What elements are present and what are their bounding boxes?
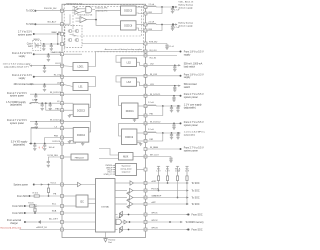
wire FB3 feedback	[46, 103, 62, 110]
svg-text:system power: system power	[184, 149, 198, 152]
svg-text:supply: supply	[19, 78, 26, 80]
svg-text:Areas on coin cell battery bac: Areas on coin cell battery backup suppli…	[105, 48, 142, 51]
pin left #18	[61, 195, 64, 198]
capacitor C1 (coin cell)	[42, 44, 45, 51]
node IN_LDO1 supply	[146, 50, 205, 56]
comparator U2 (backup detect)	[75, 7, 79, 11]
dashed box: backup switch matrix	[65, 26, 82, 48]
node DCDC1 output (1.1V core supply)	[146, 102, 203, 116]
svg-text:IN_BIAS: IN_BIAS	[150, 146, 159, 149]
AND gate U4	[79, 7, 92, 13]
wire FB5 loop	[146, 7, 163, 14]
label DCDC5 comparator ref	[78, 15, 93, 17]
capacitor C3 (VBACKUP)	[47, 54, 50, 61]
svg-text:DCDC5_PG: DCDC5_PG	[95, 8, 107, 10]
svg-text:nINT: nINT	[151, 202, 156, 204]
svg-text:GPIO3: GPIO3	[151, 228, 158, 230]
wire FB6 to DCDC6	[136, 28, 146, 31]
svg-text:Pad: Pad	[108, 242, 111, 244]
resistor R4 pull-up to VIO	[165, 166, 170, 184]
svg-text:VDD_ BU (1 V): VDD_ BU (1 V)	[178, 2, 193, 4]
svg-text:3.3-V I/O supply: 3.3-V I/O supply	[11, 142, 28, 144]
wire VBACKUP into switch area	[62, 53, 82, 55]
node IN_LS2 supply	[146, 56, 178, 60]
svg-text:VBACKUP: VBACKUP	[51, 51, 62, 54]
block DCDC4	[62, 122, 91, 144]
block LS2	[116, 56, 146, 67]
label battery backup domain supply 1	[178, 4, 193, 10]
svg-text:From 1.8 V to 5.5 V: From 1.8 V to 5.5 V	[184, 50, 204, 53]
capacitor C18 (IN_DCDC1)	[172, 96, 175, 102]
svg-text:From 2.7 V to 5.5 V: From 2.7 V to 5.5 V	[7, 119, 27, 122]
wire AC_DET into digital	[62, 221, 98, 223]
pin left #2	[61, 23, 64, 26]
svg-text:LDO1: LDO1	[77, 67, 84, 69]
svg-text:100 uF: 100 uF	[49, 147, 56, 149]
svg-text:charger: charger	[10, 222, 18, 225]
block I2C	[62, 195, 96, 207]
wire DCDC4_SEL with RC	[48, 155, 62, 160]
svg-text:(adjustable): (adjustable)	[10, 104, 22, 107]
svg-text:(adjustable): (adjustable)	[184, 106, 196, 109]
coin cell battery BT1	[27, 39, 41, 50]
svg-text:system power: system power	[184, 124, 198, 127]
node From 2.7-5.5V system power (IN_DCDC3)	[7, 92, 62, 98]
svg-text:1.8-V or 3.3-V analog supply: 1.8-V or 3.3-V analog supply	[3, 63, 32, 66]
buffer U8 (PGOOD)	[115, 188, 146, 194]
svg-text:Thermal: Thermal	[108, 238, 116, 241]
pin right #7	[144, 54, 147, 57]
pin right supervisor	[144, 168, 147, 171]
svg-text:IN_LS3: IN_LS3	[150, 74, 158, 76]
node nINT to SOC	[146, 202, 200, 206]
svg-text:nWAKEUP: nWAKEUP	[151, 195, 162, 198]
pin left #16	[61, 156, 64, 159]
capacitor C19 (DCDC1 out a)	[170, 106, 173, 112]
svg-text:switch: switch	[184, 86, 191, 89]
ground DCDC4	[68, 141, 85, 146]
capacitor C17 (LS3)	[173, 86, 176, 92]
node IN_BIAS supply	[146, 146, 205, 152]
node From SOC (SDA)	[12, 210, 62, 215]
ground DCDC3	[68, 115, 74, 118]
pin left #20	[61, 212, 64, 215]
svg-text:INT_LDO: INT_LDO	[150, 155, 159, 157]
node PGOOD to SOC	[146, 189, 200, 193]
wire BU_ACT inside	[62, 14, 70, 24]
node GPIO1 from SOC	[146, 213, 203, 217]
pin right #10	[144, 84, 147, 87]
pin right #2	[144, 12, 147, 15]
svg-text:From SOC: From SOC	[17, 195, 28, 198]
svg-text:1.8VA: 1.8VA	[175, 170, 181, 173]
wire FB6 loop	[146, 25, 163, 32]
capacitor C21 (DCDC2 out a)	[170, 133, 173, 139]
node From 1.2-3.3V supply (IN_LS1)	[12, 74, 62, 80]
pin right #3	[144, 23, 147, 26]
wire supervisor to right pin	[137, 169, 146, 171]
pin right #4	[144, 29, 147, 32]
wire coin cell to VBACKUP pin (CC)	[41, 43, 62, 45]
wire comparator U5 output to DCDC5/6	[87, 11, 121, 26]
wire thermal pad stub	[105, 232, 107, 237]
buffer U7 (nRESET)	[115, 181, 146, 185]
pin left #4	[61, 43, 64, 46]
svg-text:DCDC4: DCDC4	[52, 141, 60, 143]
capacitor C4 (LDO1)	[43, 66, 46, 73]
buffer U10 (nINT)	[115, 202, 146, 208]
svg-text:From SOC: From SOC	[12, 205, 23, 208]
label VDD_BU	[178, 2, 193, 4]
svg-text:DCDC5: DCDC5	[124, 11, 133, 13]
svg-text:DCDC3: DCDC3	[77, 111, 86, 113]
wire FB5 to DCDC5	[136, 12, 146, 15]
block digital core	[96, 179, 116, 233]
svg-text:From SOC: From SOC	[12, 212, 23, 215]
comparator U5 (VBACKUP)	[76, 17, 87, 23]
svg-text:LDO1: LDO1	[55, 63, 61, 65]
pin right #12	[144, 105, 147, 108]
svg-text:supply: supply	[19, 56, 26, 58]
label: coin cell battery backup supplies	[105, 48, 142, 51]
node LS3 output	[146, 83, 198, 89]
block LS3	[116, 76, 146, 87]
svg-text:IN_LS1: IN_LS1	[54, 74, 62, 76]
pin right #1	[144, 6, 147, 9]
svg-text:From 2.7 V to 5.5 V: From 2.7 V to 5.5 V	[184, 93, 204, 96]
svg-text:(adjustable), default 1.8 V: (adjustable), default 1.8 V	[4, 65, 29, 68]
buffer pair U11 (GPIO1)	[115, 211, 146, 217]
wire FB2 loop	[146, 133, 163, 141]
node From 1.8-5.5V supply (VBACKUP)	[12, 51, 62, 58]
pin left #12	[61, 120, 64, 123]
pin right #6	[144, 50, 147, 53]
node GPIO2 to DDR3	[146, 220, 205, 224]
svg-text:domain supply: domain supply	[178, 25, 193, 27]
pin right #20	[144, 189, 147, 192]
wire DCDC5 to L5 pin	[136, 6, 146, 8]
svg-text:Supervisor: Supervisor	[121, 165, 130, 168]
svg-text:and up_down: and up_down	[120, 169, 131, 171]
svg-text:2.2 uH: 2.2 uH	[32, 100, 38, 102]
capacitor C5 (LS1)	[43, 84, 46, 91]
svg-text:DCDC6: DCDC6	[124, 25, 133, 27]
inductor L4 wire	[31, 126, 62, 143]
svg-text:system power: system power	[10, 95, 24, 98]
svg-text:DCDC4: DCDC4	[77, 135, 86, 137]
pin left #3	[61, 33, 64, 36]
svg-text:2.2 uH: 2.2 uH	[148, 129, 154, 131]
svg-text:From 2.7 V to 5.5 V: From 2.7 V to 5.5 V	[184, 121, 204, 124]
svg-text:LS2: LS2	[127, 62, 132, 64]
svg-text:DIGITAL: DIGITAL	[101, 205, 110, 208]
node system power to VBAT_BU	[18, 31, 62, 45]
pin left #22	[61, 228, 64, 231]
pin left #21	[61, 221, 64, 224]
pin right #24	[144, 221, 147, 224]
comparator U3 (backup detect 2)	[75, 11, 79, 15]
svg-text:FB6: FB6	[149, 29, 152, 31]
svg-text:sequencer: sequencer	[122, 170, 131, 173]
supervisor input signals	[104, 165, 116, 176]
svg-text:nRST: nRST	[151, 181, 157, 183]
buffer pair U13 (GPIO3)	[115, 226, 146, 232]
svg-text:To SOC: To SOC	[192, 183, 200, 185]
capacitor C20 (IN_DCDC2)	[172, 123, 175, 129]
capacitor C22 (INT_LDO)	[169, 157, 172, 163]
node LDO1 output	[3, 63, 62, 69]
label battery backup domain supply 2	[178, 22, 193, 28]
block DCDC5	[121, 6, 137, 15]
buffer U6 (VCC sense)	[62, 182, 98, 186]
svg-text:system power: system power	[10, 122, 24, 125]
pin left #1	[61, 9, 64, 12]
node LS1 output (200 mA load switch)	[14, 82, 62, 86]
svg-text:TPS65218C0, B1): TPS65218C0, B1)	[66, 3, 83, 5]
svg-text:2.2 uH: 2.2 uH	[149, 22, 155, 24]
pin left #15	[61, 142, 64, 145]
block supervisor power-up/down sequencer	[116, 164, 137, 176]
red annotation marks (DCDC4 caps)	[38, 146, 43, 150]
wire SDA into digital	[62, 212, 98, 214]
resistor R2 pull-up (SDA)	[33, 204, 37, 213]
svg-text:System power: System power	[13, 183, 28, 186]
block DCDC6	[121, 21, 137, 30]
svg-text:R 10 k: R 10 k	[33, 192, 39, 194]
node From SOC (SCL)	[12, 202, 62, 208]
svg-text:2.2 uH: 2.2 uH	[148, 102, 154, 104]
svg-text:I2C: I2C	[80, 200, 84, 203]
svg-text:Reserved (LDO1 pins): Reserved (LDO1 pins)	[1, 226, 22, 229]
svg-text:From 1.2 V to 3.3 V: From 1.2 V to 3.3 V	[12, 74, 32, 77]
resistor R1 pull-up (PB to system power)	[47, 185, 49, 197]
node GPIO3 from SOC	[146, 228, 203, 232]
svg-text:500-mA load: 500-mA load	[184, 83, 198, 86]
pin right #8	[144, 64, 147, 67]
pin right #21	[144, 196, 147, 199]
node nWAKEUP to SOC	[146, 195, 200, 200]
svg-text:VCC1: VCC1	[50, 182, 57, 184]
transistors Q1-Q4 backup switch matrix	[68, 30, 79, 42]
wire PGOOD_BU inside	[62, 10, 75, 12]
resistor R3 pull-up to VIO	[156, 166, 161, 191]
pin right #13	[144, 114, 147, 117]
svg-text:To SOC: To SOC	[192, 198, 200, 200]
node To SOC (PGOOD_BU)	[26, 8, 62, 13]
svg-text:LPWR_CC: LPWR_CC	[104, 174, 113, 176]
thermal pad symbol	[104, 237, 116, 244]
svg-text:4.7 uF: 4.7 uF	[174, 27, 180, 29]
svg-text:load switch: load switch	[184, 66, 196, 69]
pin left #7	[61, 75, 64, 78]
capacitor C13 (DCDC5 out)	[171, 7, 180, 13]
wire VBAT_BU into switch area	[62, 34, 65, 44]
svg-text:IN_LS2: IN_LS2	[150, 57, 158, 59]
pin right #25	[144, 228, 147, 231]
svg-text:From SOC: From SOC	[192, 229, 203, 232]
block LS1	[62, 77, 96, 91]
svg-text:0.1 uF: 0.1 uF	[169, 46, 175, 48]
svg-text:IN_LDO: IN_LDO	[150, 50, 158, 52]
pin right #11	[144, 94, 147, 97]
capacitor C8 (DCDC3 out b)	[49, 103, 52, 110]
capacitor C6 (IN_DCDC3)	[34, 94, 37, 101]
svg-text:MUX: MUX	[123, 156, 129, 158]
svg-text:From external: From external	[7, 219, 22, 222]
svg-text:SDA: SDA	[52, 210, 57, 213]
svg-text:VBAT_BU: VBAT_BU	[51, 31, 61, 34]
node INT_LDO bypass	[146, 155, 172, 157]
ground DCDC1	[133, 119, 136, 122]
svg-text:500-mA, 1000-mA: 500-mA, 1000-mA	[184, 63, 203, 66]
capacitor C2 (coin cell)	[50, 44, 53, 51]
capacitor C14 (DCDC6 out)	[171, 25, 180, 31]
svg-text:Coin: Coin	[27, 43, 32, 45]
svg-text:IN_DCDC1: IN_DCDC1	[150, 94, 161, 96]
svg-text:1.1-V to 1.8-V MPU supply: 1.1-V to 1.8-V MPU supply	[184, 131, 205, 134]
svg-text:cell: cell	[28, 46, 32, 48]
wire VDDA_BU from switch matrix	[82, 43, 146, 45]
pin right #9	[144, 74, 147, 77]
capacitor C12 (DCDC4_SEL)	[47, 160, 50, 167]
node system power (VCC)	[13, 182, 62, 186]
svg-text:IN_DCDC3: IN_DCDC3	[50, 92, 62, 94]
block DCDC2	[119, 123, 146, 144]
wire nWKUP_D0 into digital	[62, 229, 98, 231]
svg-text:To DDR3 memory: To DDR3 memory	[185, 221, 204, 224]
svg-text:domain supply: domain supply	[178, 7, 193, 9]
svg-text:DCDC1: DCDC1	[126, 111, 135, 113]
pin right #16	[144, 140, 147, 143]
svg-text:IN_DCDC4: IN_DCDC4	[50, 119, 62, 121]
svg-text:system power: system power	[184, 96, 198, 99]
svg-text:2.2 uH: 2.2 uH	[149, 4, 155, 6]
svg-text:To SOC: To SOC	[26, 10, 35, 13]
capacitor C7 (DCDC3 out a)	[41, 103, 44, 110]
pin left #17	[61, 183, 64, 186]
svg-text:PGOOD_BU: PGOOD_BU	[44, 8, 57, 10]
pin left #11	[61, 109, 64, 112]
pin right #23	[144, 213, 147, 216]
svg-text:supply: supply	[184, 77, 191, 79]
capacitor C15 (VDDA_BU)	[165, 44, 174, 50]
pin right #15	[144, 132, 147, 135]
wire FB1 loop	[146, 106, 163, 116]
node From SOC (PB)	[17, 192, 62, 198]
svg-text:FB5: FB5	[149, 12, 152, 14]
svg-text:BU_ACT: BU_ACT	[48, 21, 57, 24]
resistor R5 pull-up to VIO	[175, 166, 181, 198]
svg-text:PGOOD: PGOOD	[151, 189, 159, 191]
svg-text:(adjustable): (adjustable)	[184, 133, 196, 136]
pin left #10	[61, 102, 64, 105]
node DCDC4 output (3.3-V I/O supply)	[11, 141, 62, 147]
net labels DCDC5_PG / DCDC6_PG	[92, 8, 107, 13]
node DCDC2 output (MPU supply)	[146, 129, 211, 141]
wire DCDC6 to L6 pin	[136, 24, 146, 26]
node From 2.7-5.5V system power (IN_DCDC4)	[7, 119, 62, 125]
node nRESET to SOC	[146, 181, 200, 185]
pin right #19	[144, 182, 147, 185]
svg-text:(adjustable): (adjustable)	[13, 144, 25, 147]
wire FB4 feedback	[45, 136, 62, 144]
resistor R6 pull-up to VIO	[185, 166, 190, 205]
capacitor C9 (IN_DCDC4)	[35, 122, 38, 129]
capacitor C10 (DCDC4 out a)	[33, 144, 36, 151]
node IN_DCDC1 supply	[146, 93, 205, 99]
pin right #14	[144, 122, 147, 125]
pin right #18	[144, 155, 147, 158]
svg-text:1.1-V core supply: 1.1-V core supply	[184, 104, 203, 107]
pin right #5	[144, 42, 147, 45]
svg-text:Battery backup: Battery backup	[178, 22, 193, 25]
wire switch matrix internal	[70, 26, 77, 36]
node IN_DCDC2 supply	[146, 121, 205, 127]
svg-text:To SOC: To SOC	[26, 23, 35, 26]
pin right #17	[144, 148, 147, 151]
svg-text:nWKUP_D0: nWKUP_D0	[36, 227, 48, 229]
svg-text:system power: system power	[18, 33, 32, 36]
svg-text:2.7 V to 5.5 V: 2.7 V to 5.5 V	[18, 31, 32, 34]
block LDO1	[62, 52, 146, 71]
node DCDC5 output L5	[146, 4, 178, 8]
pin left #5	[61, 53, 64, 56]
pin left #6	[61, 64, 64, 67]
svg-text:4.7 uF: 4.7 uF	[174, 9, 180, 11]
svg-text:From 1.8 V to 5.5 V: From 1.8 V to 5.5 V	[12, 52, 32, 55]
red note TPS65218D0 only	[1, 226, 63, 229]
dashed box: coin-cell battery backup supplies section	[64, 3, 143, 51]
pin left #9	[61, 93, 64, 96]
svg-text:1.5-V DDR3 supply: 1.5-V DDR3 supply	[6, 102, 27, 104]
ground DCDC2	[137, 143, 142, 146]
block MUX	[99, 149, 146, 161]
node VDDA_BU cap	[146, 42, 168, 44]
svg-text:DC34_SEL: DC34_SEL	[48, 155, 59, 157]
svg-text:supply: supply	[184, 54, 191, 56]
node To SOC (WAKE_BU)	[26, 21, 62, 27]
svg-text:IN_DCDC2: IN_DCDC2	[150, 122, 161, 124]
dashed box: backup supply switchover	[73, 6, 142, 36]
svg-text:DCDC2: DCDC2	[125, 137, 134, 139]
node DCDC3 output (1.5-V DDR3 supply)	[6, 100, 62, 107]
block DCDC3	[62, 94, 91, 116]
node From external charger (AC_DET)	[7, 217, 62, 225]
capacitor C21b (DCDC2 out b)	[176, 133, 179, 139]
PMIC chip boundary U1 (TPS65218)	[62, 4, 146, 237]
pin right #22	[144, 203, 147, 206]
svg-text:From 1.8 V to 3.3 V: From 1.8 V to 3.3 V	[184, 73, 204, 76]
node IN_LS3 supply	[146, 73, 205, 79]
svg-text:From SOC: From SOC	[192, 214, 203, 217]
svg-text:Battery backup: Battery backup	[178, 4, 193, 7]
svg-text:GPIO2: GPIO2	[151, 220, 158, 222]
pin left #8	[61, 83, 64, 86]
svg-text:To SOC: To SOC	[192, 204, 200, 206]
capacitor C11 (DCDC4 out b)	[43, 144, 55, 151]
capacitor C19b (DCDC1 out b)	[176, 106, 179, 112]
svg-text:AC_DET: AC_DET	[49, 217, 58, 220]
svg-text:GPIO1: GPIO1	[151, 213, 158, 215]
AND gate U12 (GPIO2)	[115, 216, 146, 225]
svg-text:FREQ2257: FREQ2257	[75, 157, 84, 159]
svg-text:LS3: LS3	[127, 82, 132, 84]
svg-text:LS1: LS1	[78, 87, 83, 89]
buffer U9 (nWAKEUP)	[115, 195, 146, 201]
pin left #19	[61, 205, 64, 208]
svg-text:To SOC: To SOC	[192, 191, 200, 193]
svg-text:MS621: MS621	[34, 39, 40, 41]
